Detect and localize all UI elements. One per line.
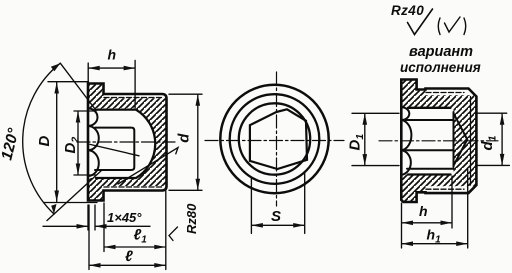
svg-text:D: D — [36, 136, 53, 147]
svg-text:исполнения: исполнения — [400, 60, 481, 75]
svg-text:d: d — [176, 133, 193, 143]
svg-text:S: S — [271, 208, 281, 225]
svg-text:d1: d1 — [479, 135, 498, 150]
svg-text:Rz80: Rz80 — [184, 203, 199, 234]
svg-text:h1: h1 — [427, 227, 442, 246]
svg-text:D2: D2 — [62, 137, 81, 154]
svg-text:1×45°: 1×45° — [107, 210, 142, 225]
svg-text:ℓ1: ℓ1 — [134, 227, 148, 246]
svg-text:Rz40: Rz40 — [391, 3, 424, 18]
svg-text:h: h — [108, 47, 117, 63]
svg-text:120°: 120° — [0, 126, 23, 162]
svg-text:вариант: вариант — [409, 44, 473, 60]
svg-text:h: h — [419, 203, 428, 219]
svg-text:D1: D1 — [347, 134, 366, 151]
svg-text:ℓ: ℓ — [125, 248, 133, 265]
